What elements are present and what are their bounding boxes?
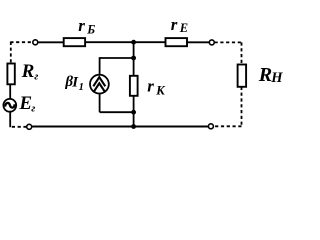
current source βI1 circle (90, 75, 109, 94)
wire vertical rК to bottom (133, 96, 135, 126)
node B junction (131, 56, 136, 61)
wire dashed right vertical upper (241, 42, 243, 64)
svg-text:E: E (179, 21, 188, 35)
svg-text:E: E (18, 93, 32, 114)
terminal top-right (209, 40, 214, 45)
wire dashed top-left horizontal (10, 41, 32, 43)
wire left vertical bottom (9, 112, 11, 128)
svg-text:Н: Н (270, 70, 283, 86)
wire vertical B to rК (133, 58, 135, 76)
wire dashed bottom-right horizontal (214, 125, 242, 127)
resistor RН (238, 65, 247, 87)
source Eг (3, 99, 16, 112)
wire dashed right vertical lower (241, 87, 243, 127)
current source arrow chevron 2 (93, 83, 105, 92)
terminal bottom-left (27, 124, 32, 129)
svg-text:г: г (31, 102, 35, 114)
svg-text:1: 1 (79, 82, 84, 93)
resistor rБ (64, 38, 85, 46)
wire current-source lower vertical (99, 93, 101, 112)
wire left vertical middle (9, 84, 11, 99)
svg-text:К: К (155, 83, 166, 97)
node C junction (131, 110, 136, 115)
terminal bottom-right (208, 124, 213, 129)
wire top-left segment (38, 41, 64, 43)
svg-text:Б: Б (86, 22, 95, 36)
current source arrow chevron 1 (93, 77, 105, 86)
node A junction top (131, 40, 136, 45)
wire dashed top-right horizontal (215, 41, 242, 43)
resistor Rг (7, 64, 14, 85)
wire dashed left vertical (10, 42, 12, 64)
wire top middle segment (85, 41, 165, 43)
svg-text:г: г (34, 70, 38, 82)
resistor rК (130, 76, 138, 96)
wire top-right segment (187, 41, 209, 43)
svg-text:r: r (171, 15, 178, 34)
wire current-source bottom horizontal (100, 111, 134, 113)
sine symbol of Eг (5, 103, 15, 108)
svg-text:r: r (147, 77, 154, 96)
svg-text:R: R (258, 64, 272, 86)
wire dashed bottom-left horizontal (11, 126, 27, 128)
svg-text:R: R (21, 61, 35, 82)
resistor rE (166, 38, 188, 46)
wire current-source upper vertical (99, 57, 101, 75)
svg-text:r: r (78, 16, 85, 35)
terminal top-left (33, 40, 38, 45)
wire current-source top horizontal (100, 57, 134, 59)
wire vertical A-B (133, 42, 135, 58)
node D junction bottom (131, 124, 136, 129)
wire bottom (32, 126, 209, 128)
